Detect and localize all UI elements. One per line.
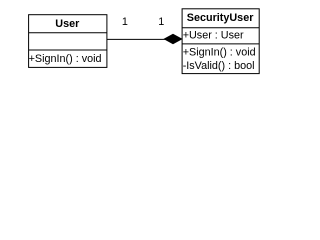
svg-text:User: User: [55, 18, 80, 30]
SecurityUser attributes/methods divider: [182, 43, 259, 45]
svg-text:+SignIn() : void: +SignIn() : void: [29, 53, 102, 65]
svg-text:1: 1: [122, 16, 128, 28]
User header divider: [29, 32, 107, 34]
svg-text:SecurityUser: SecurityUser: [187, 12, 254, 24]
class box SecurityUser: [182, 9, 259, 74]
class box User: [29, 15, 107, 68]
svg-text:+SignIn() : void: +SignIn() : void: [183, 46, 256, 58]
svg-text:+User : User: +User : User: [183, 30, 244, 42]
svg-text:1: 1: [158, 16, 164, 28]
User attributes/methods divider: [29, 49, 107, 51]
SecurityUser header divider: [182, 27, 259, 29]
composition diamond at SecurityUser end: [165, 34, 182, 43]
association wire User to SecurityUser: [107, 38, 168, 40]
svg-text:-IsValid() : bool: -IsValid() : bool: [183, 60, 255, 72]
